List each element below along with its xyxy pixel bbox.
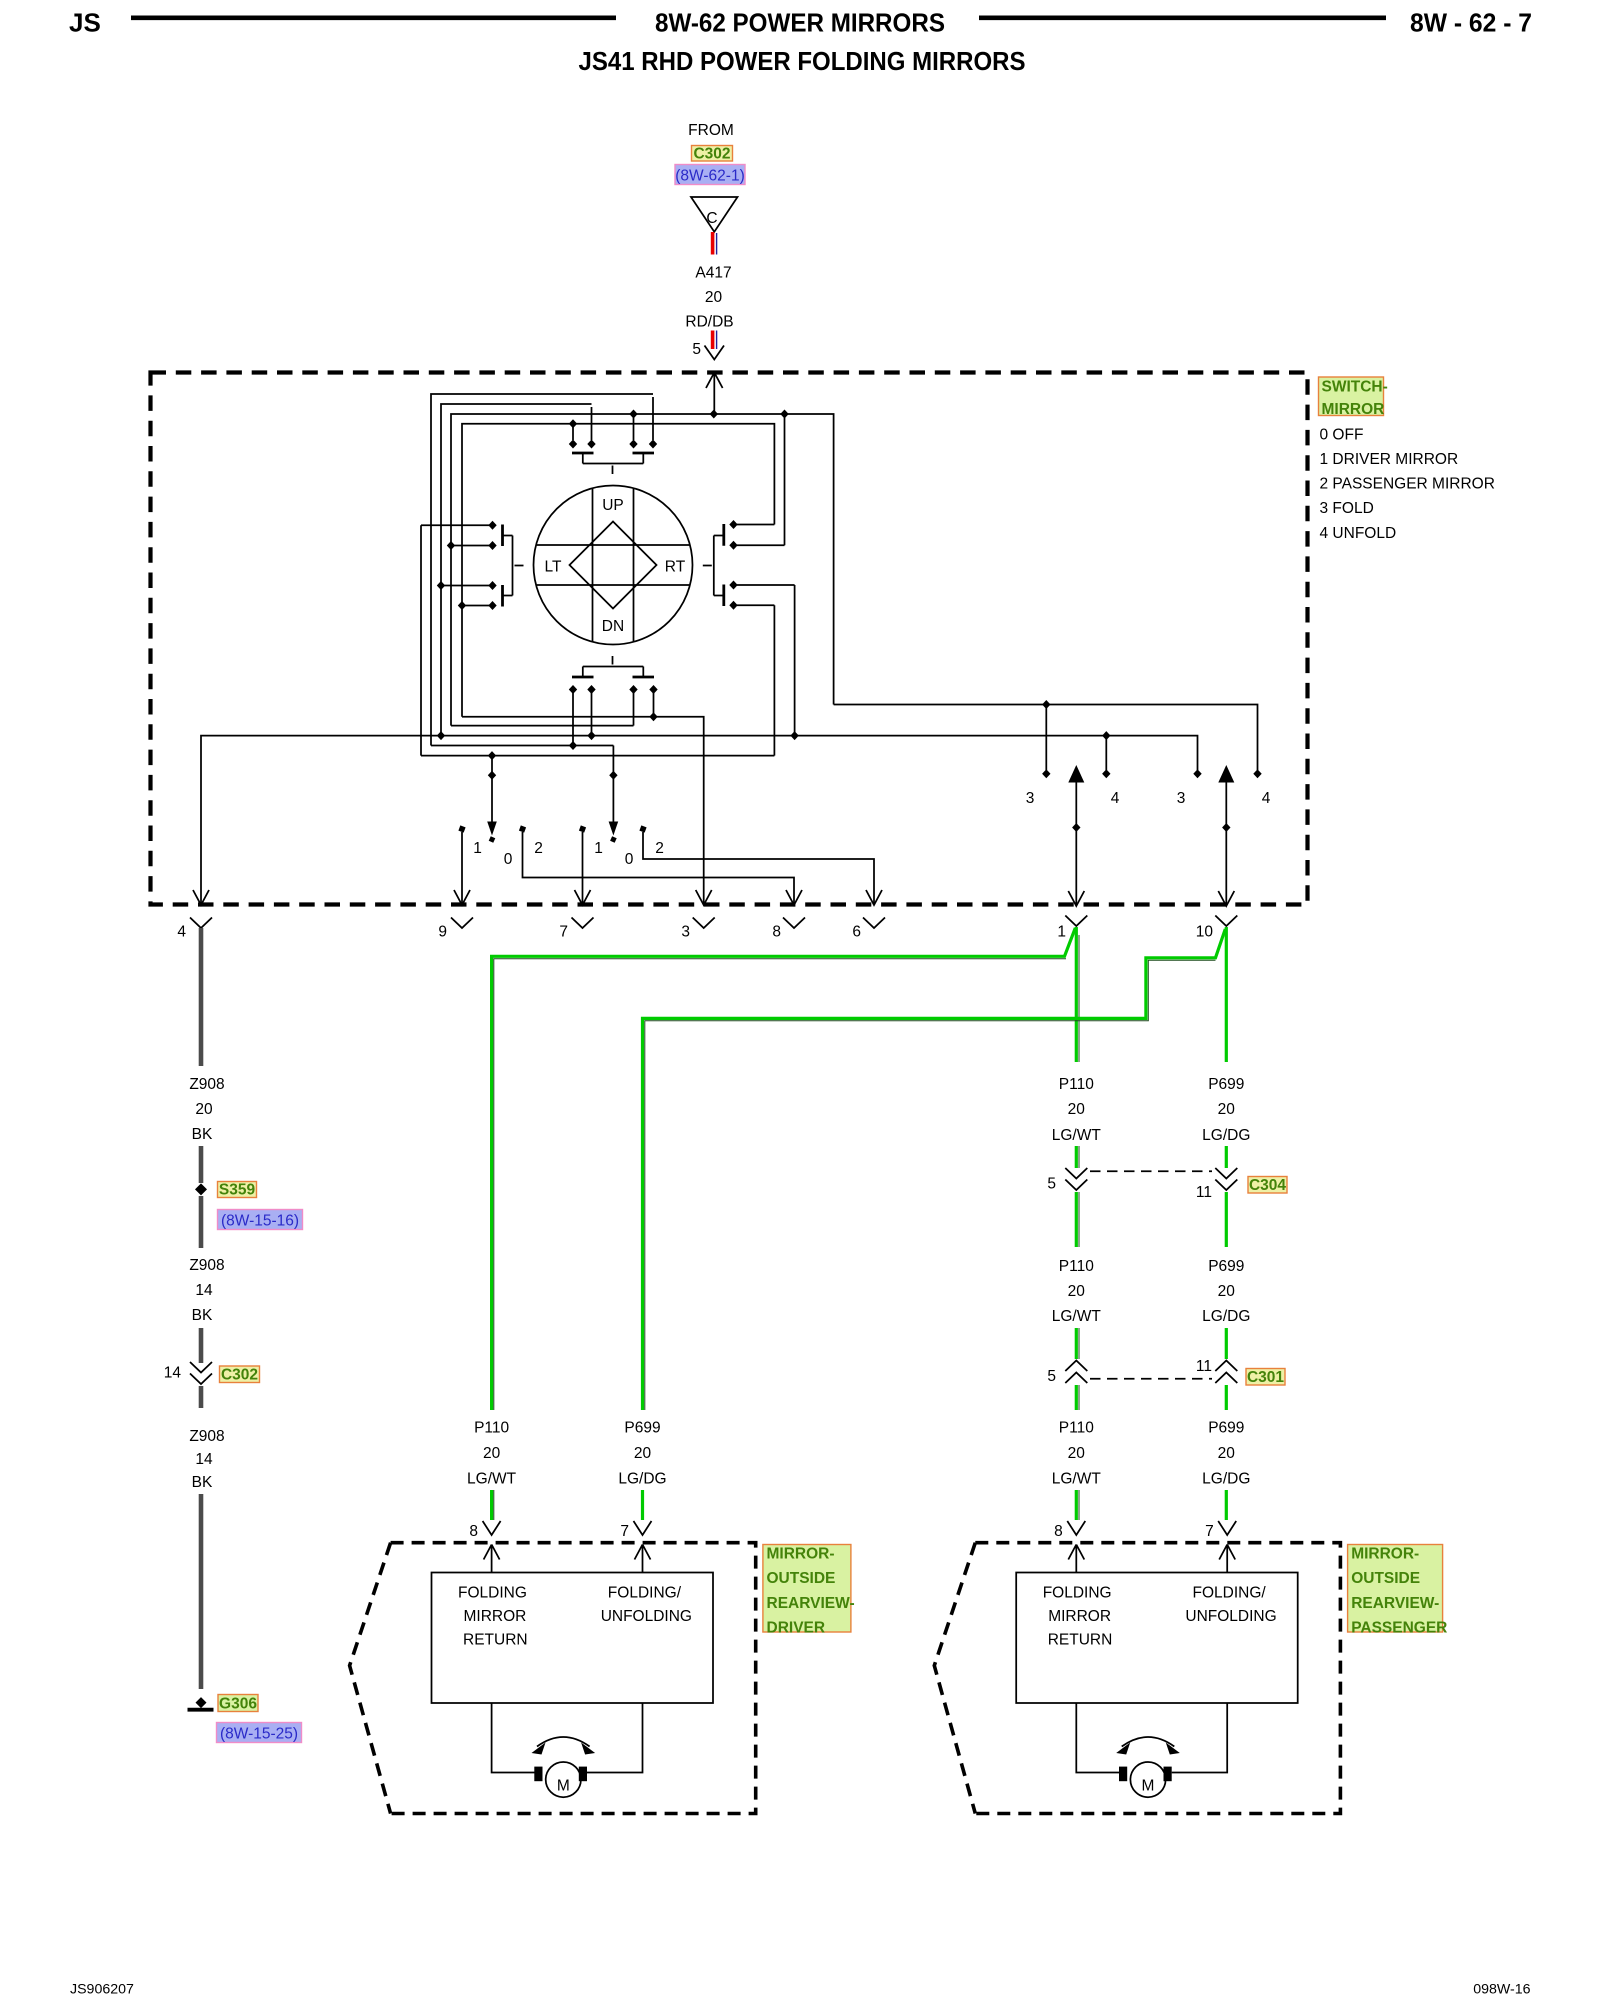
svg-text:5: 5 xyxy=(692,341,701,358)
wire P110 C304 to label xyxy=(1075,1192,1078,1247)
wire bus D xyxy=(462,424,774,717)
SWITCH-INTERNALS xyxy=(201,394,1271,905)
svg-text:8: 8 xyxy=(1054,1523,1063,1540)
svg-text:LG/WT: LG/WT xyxy=(1052,1308,1102,1325)
pin 8 connector Y xyxy=(483,1521,501,1535)
page reference (8W-15-25) xyxy=(217,1723,302,1743)
wire collector row 5 xyxy=(421,755,774,757)
function box xyxy=(432,1573,714,1704)
wire A417 RD/DB lower segment xyxy=(711,331,715,350)
svg-text:UNFOLDING: UNFOLDING xyxy=(601,1608,692,1625)
svg-text:20: 20 xyxy=(1218,1283,1236,1300)
svg-text:UNFOLDING: UNFOLDING xyxy=(1185,1608,1276,1625)
pin 8 entry arrow xyxy=(484,1545,500,1573)
svg-text:BK: BK xyxy=(192,1307,213,1324)
svg-text:7: 7 xyxy=(620,1523,629,1540)
junction dot row4 xyxy=(569,741,577,750)
svg-text:20: 20 xyxy=(1068,1283,1086,1300)
svg-text:8: 8 xyxy=(469,1523,478,1540)
svg-text:2 PASSENGER MIRROR: 2 PASSENGER MIRROR xyxy=(1320,476,1495,493)
junction dot fold bus xyxy=(1042,700,1050,709)
page reference (8W-15-16) xyxy=(218,1210,303,1230)
svg-text:P699: P699 xyxy=(1208,1258,1244,1275)
function box xyxy=(1016,1573,1297,1704)
wire P699 into C304 xyxy=(1225,1146,1228,1168)
svg-text:MIRROR: MIRROR xyxy=(464,1608,527,1625)
connector C302 symbol xyxy=(190,1362,212,1373)
svg-text:C302: C302 xyxy=(221,1367,258,1384)
svg-text:LG/DG: LG/DG xyxy=(1202,1127,1250,1144)
selector group1 terminal 1 xyxy=(458,825,465,832)
fold wiper pin 1 xyxy=(1075,781,1077,905)
wire P699 from pin 10 (LG/DG) xyxy=(1225,927,1228,1062)
wire Z908 segment 3 xyxy=(199,1196,204,1248)
svg-text:098W-16: 098W-16 xyxy=(1473,1982,1530,1998)
svg-text:2: 2 xyxy=(534,840,543,857)
selector group2 terminal 2 xyxy=(639,825,646,832)
passenger mirror module xyxy=(934,1521,1447,1814)
SWITCH-BOX xyxy=(151,373,1495,905)
svg-text:A417: A417 xyxy=(695,265,731,282)
svg-text:5: 5 xyxy=(1047,1176,1056,1193)
svg-text:FOLDING/: FOLDING/ xyxy=(1193,1585,1267,1602)
pin 5 entry arrow into switch xyxy=(706,373,723,416)
wire branch diamond 4 (left) xyxy=(1105,736,1107,770)
svg-text:5: 5 xyxy=(1047,1368,1056,1385)
svg-text:OUTSIDE: OUTSIDE xyxy=(1351,1570,1420,1587)
joystick diamond xyxy=(570,522,657,609)
svg-text:14: 14 xyxy=(164,1365,182,1382)
svg-text:Z908: Z908 xyxy=(189,1428,224,1445)
switch element bottom (DN drive) bars and actuator xyxy=(572,676,654,679)
svg-text:FROM: FROM xyxy=(688,122,734,139)
svg-text:DRIVER: DRIVER xyxy=(767,1620,826,1637)
switch element left contact 3 xyxy=(441,585,490,587)
module dashed outline xyxy=(350,1543,756,1814)
svg-text:MIRROR-: MIRROR- xyxy=(767,1546,835,1563)
svg-text:MIRROR: MIRROR xyxy=(1048,1608,1111,1625)
svg-text:4: 4 xyxy=(1262,790,1271,807)
wire P699 to driver pin 7 xyxy=(641,1490,644,1520)
svg-text:LG/DG: LG/DG xyxy=(1202,1308,1250,1325)
wire P110 to driver pin 8 xyxy=(490,1490,493,1520)
splice S359 xyxy=(195,1183,207,1195)
header rule left xyxy=(131,15,616,20)
svg-text:20: 20 xyxy=(1068,1101,1086,1118)
joystick vertical chord right xyxy=(633,489,635,642)
svg-text:LG/WT: LG/WT xyxy=(1052,1127,1102,1144)
svg-text:8: 8 xyxy=(772,924,781,941)
svg-text:Z908: Z908 xyxy=(189,1076,224,1093)
svg-text:20: 20 xyxy=(1218,1445,1236,1462)
svg-text:20: 20 xyxy=(1068,1445,1086,1462)
wire bus A (top) xyxy=(431,394,653,746)
svg-text:1: 1 xyxy=(1057,924,1066,941)
switch element bottom contact drops xyxy=(572,690,574,746)
svg-text:8W-62 POWER MIRRORS: 8W-62 POWER MIRRORS xyxy=(655,8,945,38)
switch element right contact 2 xyxy=(737,544,785,546)
wire P110 to passenger pin 8 xyxy=(1075,1490,1078,1520)
pin 7 connector Y xyxy=(1218,1521,1236,1535)
svg-text:8W - 62 - 7: 8W - 62 - 7 xyxy=(1410,8,1532,38)
svg-text:0: 0 xyxy=(625,851,634,868)
motor brushes xyxy=(534,1767,542,1782)
svg-text:BK: BK xyxy=(192,1126,213,1143)
svg-text:JS: JS xyxy=(69,8,101,38)
svg-text:Z908: Z908 xyxy=(189,1257,224,1274)
svg-text:P699: P699 xyxy=(624,1420,660,1437)
switch element top (UP drive) contact drops xyxy=(572,427,574,440)
switch element left contact 4 xyxy=(462,605,490,607)
svg-text:REARVIEW-: REARVIEW- xyxy=(1351,1595,1439,1612)
component label MIRROR-OUTSIDE REARVIEW-PASSENGER xyxy=(1348,1545,1443,1633)
pin 9 exit arrow and connector xyxy=(454,890,470,905)
svg-text:14: 14 xyxy=(195,1282,213,1299)
wire P699 C301 to label xyxy=(1225,1385,1228,1410)
wire P699 branch to driver mirror xyxy=(643,929,1226,1410)
pin 4 exit arrow and connector xyxy=(193,890,209,905)
switch element right contact 3 xyxy=(737,584,795,586)
wire P110 branch to driver mirror xyxy=(492,928,1076,1410)
wire right contact3 drop xyxy=(794,585,796,736)
wire Z908 segment 2 xyxy=(199,1146,204,1183)
PINS-ROW xyxy=(177,890,1237,941)
joystick horizontal chord bottom xyxy=(537,584,690,586)
switch element top bars and actuator xyxy=(572,452,654,455)
svg-text:11: 11 xyxy=(1196,1358,1212,1375)
pin 8 entry arrow xyxy=(1068,1545,1084,1573)
wire A417 RD/DB upper segment xyxy=(711,232,715,255)
svg-text:SWITCH-: SWITCH- xyxy=(1322,379,1388,396)
wire Z908 segment 1 (BK) xyxy=(199,928,204,1066)
wire collector row 2 xyxy=(451,725,634,727)
svg-text:3: 3 xyxy=(1177,790,1186,807)
svg-text:C: C xyxy=(706,210,717,227)
pin 7 connector Y xyxy=(634,1521,652,1535)
svg-text:LG/DG: LG/DG xyxy=(618,1471,666,1488)
svg-text:S359: S359 xyxy=(219,1182,256,1199)
switch element left bars and actuator xyxy=(501,525,504,607)
svg-text:DN: DN xyxy=(602,618,624,635)
joystick horizontal chord top xyxy=(537,544,690,546)
switch element right contact 4 xyxy=(737,604,774,606)
wire Z908 segment 6 xyxy=(199,1494,204,1689)
svg-text:7: 7 xyxy=(1205,1523,1214,1540)
svg-text:20: 20 xyxy=(634,1445,652,1462)
svg-text:(8W-15-25): (8W-15-25) xyxy=(220,1726,298,1743)
pin 8 exit arrow and connector xyxy=(786,890,802,905)
wire right fold bus xyxy=(834,705,1258,771)
pin 3 exit arrow and connector xyxy=(696,890,712,905)
pin 7 entry arrow xyxy=(635,1545,651,1573)
selector group2 terminal 1 xyxy=(579,825,586,832)
svg-text:4 UNFOLD: 4 UNFOLD xyxy=(1320,525,1397,542)
svg-text:1: 1 xyxy=(473,840,482,857)
GREEN-WIRES xyxy=(467,927,1287,1520)
junction dot on bus D xyxy=(569,419,577,428)
connector Y symbol at pin 5 xyxy=(705,346,725,360)
connector C304 symbol xyxy=(1065,1168,1087,1179)
joystick vertical chord left xyxy=(592,489,594,642)
wire common bus to pin 4 xyxy=(201,736,1198,905)
switch element right bars and actuator xyxy=(722,524,725,606)
svg-text:C302: C302 xyxy=(693,146,730,163)
svg-text:3: 3 xyxy=(681,924,690,941)
svg-text:0 OFF: 0 OFF xyxy=(1320,426,1364,443)
svg-text:(8W-15-16): (8W-15-16) xyxy=(221,1213,299,1230)
motor M xyxy=(1130,1762,1165,1797)
svg-text:20: 20 xyxy=(1218,1101,1236,1118)
TOP-FEED xyxy=(675,122,745,415)
svg-text:RD/DB: RD/DB xyxy=(685,313,733,330)
wire branch diamond 3 (left) xyxy=(1045,705,1047,771)
svg-text:20: 20 xyxy=(195,1101,213,1118)
svg-text:P699: P699 xyxy=(1208,1076,1244,1093)
header rule right xyxy=(979,15,1386,20)
svg-text:7: 7 xyxy=(559,924,568,941)
wire P110 into C301 xyxy=(1075,1328,1078,1359)
svg-text:P699: P699 xyxy=(1208,1420,1244,1437)
switch element right (RT drive) contact 1 xyxy=(737,524,774,526)
junction dots on common bus xyxy=(437,731,445,740)
svg-text:4: 4 xyxy=(1111,790,1120,807)
switch element left (LT drive) contact 1 xyxy=(421,524,490,526)
module dashed outline xyxy=(934,1543,1340,1814)
wire bus C (feed from pin 5) xyxy=(451,414,834,726)
off-page connector triangle C xyxy=(691,197,738,232)
wire collector row 4 xyxy=(431,745,613,747)
junction dot row3/pin3 xyxy=(649,712,657,721)
svg-text:20: 20 xyxy=(705,289,723,306)
connector reference C302 (top) xyxy=(692,146,733,162)
wire P699 into C301 xyxy=(1225,1328,1228,1359)
svg-text:G306: G306 xyxy=(219,1696,257,1713)
svg-text:2: 2 xyxy=(655,840,664,857)
selector group2 wiper arrow xyxy=(612,746,614,823)
joystick circle xyxy=(534,486,693,645)
driver mirror module xyxy=(350,1521,855,1814)
connector C301 symbol xyxy=(1065,1361,1087,1372)
component label MIRROR-OUTSIDE REARVIEW-DRIVER xyxy=(763,1545,851,1633)
pin 8 connector Y xyxy=(1067,1521,1085,1535)
wire from left contact1 xyxy=(420,525,422,755)
wire P110 into C304 xyxy=(1075,1146,1078,1168)
svg-text:P110: P110 xyxy=(1059,1076,1094,1093)
wire bus B xyxy=(441,404,592,736)
ground G306 xyxy=(196,1697,207,1708)
motor wires xyxy=(492,1703,643,1773)
svg-text:MIRROR: MIRROR xyxy=(1322,401,1385,418)
svg-text:4: 4 xyxy=(177,924,186,941)
component label SWITCH-MIRROR xyxy=(1319,377,1384,416)
svg-text:RT: RT xyxy=(665,559,686,576)
motor M xyxy=(546,1762,581,1797)
svg-text:BK: BK xyxy=(192,1474,213,1491)
wire Z908 segment 5 xyxy=(199,1386,204,1408)
svg-text:REARVIEW-: REARVIEW- xyxy=(767,1595,855,1612)
pin 7 entry arrow xyxy=(1219,1545,1235,1573)
svg-text:JS41 RHD POWER FOLDING MIRRORS: JS41 RHD POWER FOLDING MIRRORS xyxy=(579,46,1026,76)
svg-text:LG/WT: LG/WT xyxy=(467,1471,517,1488)
svg-text:M: M xyxy=(1142,1778,1155,1795)
selector group1 terminal 2 xyxy=(519,825,526,832)
page reference (8W-62-1) xyxy=(675,165,745,185)
svg-text:PASSENGER: PASSENGER xyxy=(1351,1620,1447,1637)
svg-text:P110: P110 xyxy=(1059,1420,1094,1437)
svg-text:9: 9 xyxy=(438,924,447,941)
pin 10 exit arrow and connector xyxy=(1218,891,1234,906)
switch-mirror dashed enclosure xyxy=(151,373,1308,905)
svg-text:FOLDING/: FOLDING/ xyxy=(608,1585,682,1602)
svg-text:MIRROR-: MIRROR- xyxy=(1351,1546,1419,1563)
svg-text:C304: C304 xyxy=(1249,1177,1286,1194)
fold wiper pin 10 xyxy=(1225,781,1227,905)
junction dot row5/group1 xyxy=(488,751,496,760)
svg-text:1 DRIVER MIRROR: 1 DRIVER MIRROR xyxy=(1320,451,1459,468)
svg-text:P110: P110 xyxy=(474,1420,509,1437)
svg-text:RETURN: RETURN xyxy=(463,1632,528,1649)
svg-text:C301: C301 xyxy=(1247,1369,1284,1386)
wire P699 to passenger pin 7 xyxy=(1225,1490,1228,1520)
svg-text:10: 10 xyxy=(1196,924,1214,941)
svg-text:20: 20 xyxy=(483,1445,501,1462)
wire Z908 segment 4 xyxy=(199,1328,204,1363)
motor wires xyxy=(1076,1703,1227,1773)
motor rotation arrows xyxy=(537,1737,590,1747)
svg-text:OUTSIDE: OUTSIDE xyxy=(767,1570,836,1587)
svg-text:M: M xyxy=(557,1778,570,1795)
wire P110 C301 to label xyxy=(1075,1385,1078,1410)
pin 7 exit arrow and connector xyxy=(575,890,591,905)
pin 1 exit arrow and connector xyxy=(1068,891,1084,906)
svg-text:3: 3 xyxy=(1026,790,1035,807)
motor rotation arrows xyxy=(1122,1737,1175,1747)
svg-text:LT: LT xyxy=(545,559,562,576)
svg-text:JS906207: JS906207 xyxy=(70,1982,134,1998)
svg-text:FOLDING: FOLDING xyxy=(458,1585,527,1602)
svg-text:LG/WT: LG/WT xyxy=(1052,1471,1102,1488)
svg-text:UP: UP xyxy=(602,497,624,514)
svg-text:FOLDING: FOLDING xyxy=(1043,1585,1112,1602)
svg-text:1: 1 xyxy=(594,840,603,857)
svg-text:11: 11 xyxy=(1196,1184,1212,1201)
wire right contact4 drop xyxy=(773,605,775,755)
switch element left contact 2 xyxy=(451,545,490,547)
BK-CHAIN xyxy=(164,928,303,1743)
terminal diamonds 3 4 3 4 xyxy=(1042,769,1050,778)
junction dots on bus C xyxy=(629,410,637,419)
svg-text:0: 0 xyxy=(504,851,513,868)
wire P110 from pin 1 (LG/WT) xyxy=(1075,927,1078,1062)
wire right contact2 drop xyxy=(784,414,786,545)
svg-text:6: 6 xyxy=(852,924,861,941)
selector group1 wiper arrow xyxy=(491,756,493,822)
svg-text:14: 14 xyxy=(195,1451,213,1468)
MODULES xyxy=(350,1521,1448,1814)
pin 6 exit arrow and connector xyxy=(866,890,882,905)
wire P699 C304 to label xyxy=(1225,1192,1228,1247)
motor brushes xyxy=(1119,1767,1127,1782)
wire collector to pin 3 xyxy=(462,717,704,905)
svg-text:LG/DG: LG/DG xyxy=(1202,1471,1250,1488)
svg-text:3 FOLD: 3 FOLD xyxy=(1320,500,1374,517)
svg-text:RETURN: RETURN xyxy=(1048,1632,1113,1649)
svg-text:P110: P110 xyxy=(1059,1258,1094,1275)
svg-text:(8W-62-1): (8W-62-1) xyxy=(675,168,744,185)
